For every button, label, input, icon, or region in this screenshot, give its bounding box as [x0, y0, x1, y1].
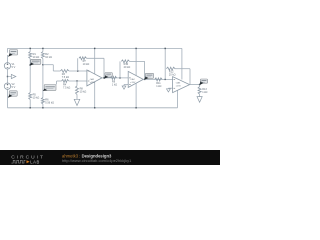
- node junction: [42, 64, 43, 65]
- svg-text:±15V: ±15V: [176, 85, 182, 87]
- svg-text:LAB: LAB: [30, 159, 40, 164]
- resistor R9 between OA1 and OA2: [110, 76, 116, 79]
- wire: [29, 48, 31, 51]
- wire: [56, 81, 58, 85]
- node junction: [30, 64, 31, 65]
- wire: [69, 70, 87, 72]
- node junction: [165, 79, 166, 80]
- node junction: [94, 107, 95, 108]
- node junction: [135, 107, 136, 108]
- wire: [103, 58, 105, 78]
- ground at OA3 non-inverting input: [168, 87, 172, 89]
- wire: [181, 48, 183, 79]
- node junction: [199, 84, 200, 85]
- node junction: [42, 107, 43, 108]
- flag box F1 on source chain: [10, 50, 18, 56]
- wire: [29, 59, 31, 93]
- svg-text:7.5 kΩ: 7.5 kΩ: [63, 86, 70, 89]
- node junction: [30, 107, 31, 108]
- wire: [69, 80, 87, 82]
- wire: [87, 57, 105, 59]
- OA3 output wire: [190, 84, 200, 86]
- OA2 output wire: [143, 78, 172, 80]
- flag box F2 on source chain bottom: [9, 91, 17, 96]
- wire: [119, 61, 121, 78]
- node junction: [42, 48, 43, 49]
- svg-text:OA2: OA2: [130, 78, 135, 81]
- svg-text:0.56 kΩ: 0.56 kΩ: [45, 101, 54, 104]
- voltage source V2: [4, 83, 10, 89]
- node junction: [77, 70, 78, 71]
- wire: [77, 58, 79, 71]
- svg-text:±15V: ±15V: [130, 82, 136, 84]
- wire: [130, 60, 145, 62]
- svg-text:1 kΩ: 1 kΩ: [112, 83, 117, 86]
- node junction: [165, 48, 166, 49]
- resistor R5 divider A bottom: [29, 93, 32, 100]
- voltage source V1: [4, 63, 10, 69]
- svg-text:OA3: OA3: [176, 81, 181, 84]
- op-amp OA2: [128, 71, 143, 87]
- wire: [189, 69, 191, 85]
- ground flag at source midpoint: [8, 76, 12, 78]
- flag box FB on divider B: [44, 85, 56, 91]
- resistor R6 divider B bottom: [41, 98, 44, 105]
- wire divider B tap to R3: [43, 64, 53, 66]
- node junction: [30, 48, 31, 49]
- resistor R4 input to OA1 non-inverting: [62, 80, 69, 83]
- svg-text:20 kΩ: 20 kΩ: [124, 66, 131, 69]
- ground at OA2 non-inverting input: [124, 84, 128, 86]
- flag box after OA1: [105, 73, 112, 78]
- svg-text:1 kΩ: 1 kΩ: [156, 85, 161, 88]
- wire: [76, 95, 78, 100]
- wire: [177, 90, 179, 108]
- op-amp OA1: [87, 70, 102, 86]
- wire: [7, 55, 9, 63]
- wire: [164, 48, 166, 79]
- op-amp OA3: [173, 77, 190, 93]
- wire: [135, 48, 137, 107]
- resistor R11 between OA2 and OA3: [155, 78, 163, 81]
- top supply rail: [8, 47, 182, 49]
- node junction: [144, 79, 145, 80]
- wire: [7, 89, 9, 107]
- wire: [29, 100, 31, 108]
- wire: [42, 104, 44, 108]
- wire: [199, 94, 201, 96]
- node junction: [119, 77, 120, 78]
- wire: [76, 81, 78, 86]
- svg-text:OA1: OA1: [90, 78, 95, 81]
- svg-text:1 kΩ: 1 kΩ: [202, 91, 207, 94]
- svg-text:5 V: 5 V: [12, 66, 16, 69]
- svg-text:10 kΩ: 10 kΩ: [83, 63, 90, 66]
- svg-text:10 kΩ: 10 kΩ: [33, 97, 40, 100]
- svg-text:5 V: 5 V: [12, 86, 16, 89]
- wire: [199, 85, 201, 87]
- wire: [42, 48, 44, 51]
- wire: [144, 61, 146, 79]
- ground below R8: [74, 99, 80, 105]
- bottom supply rail: [8, 107, 178, 109]
- node junction: [7, 76, 8, 77]
- svg-text:10 kΩ: 10 kΩ: [33, 56, 40, 59]
- ground below R13: [197, 97, 202, 103]
- OA1 output wire: [102, 77, 128, 79]
- svg-text:±15V: ±15V: [90, 82, 96, 84]
- resistor R3 input to OA1 inverting: [60, 70, 69, 73]
- node junction: [94, 48, 95, 49]
- wire: [7, 48, 9, 52]
- wire: [94, 48, 96, 107]
- bottom banner: [0, 150, 220, 165]
- svg-text:7.5 kΩ: 7.5 kΩ: [62, 76, 69, 79]
- svg-text:http://www.circuitlab.com/c4pe: http://www.circuitlab.com/c4pe2hkkjky1: [62, 158, 132, 163]
- svg-text:10 kΩ: 10 kΩ: [80, 90, 87, 93]
- flag box at output: [200, 79, 207, 83]
- flag box after OA2: [145, 73, 153, 78]
- node junction: [135, 48, 136, 49]
- flag box FA on divider A: [31, 59, 41, 64]
- wire: [42, 59, 44, 98]
- svg-text:20 kΩ: 20 kΩ: [169, 73, 176, 76]
- wire: [7, 69, 9, 83]
- svg-text:CIRCUIT: CIRCUIT: [11, 155, 45, 161]
- svg-text:10 kΩ: 10 kΩ: [45, 56, 52, 59]
- node junction: [103, 77, 104, 78]
- node junction: [76, 80, 77, 81]
- resistor R12 feedback of OA3: [166, 67, 175, 70]
